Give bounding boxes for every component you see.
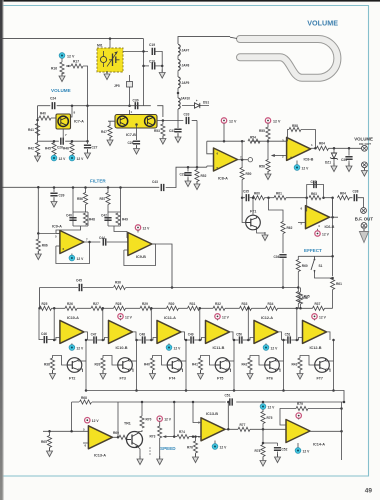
capacitor C26 series — [61, 138, 63, 145]
op-amp IC12-B — [303, 320, 327, 343]
transistor FT4 — [167, 358, 182, 373]
svg-text:R61: R61 — [276, 192, 282, 196]
test point — [248, 158, 252, 162]
wire gate network — [300, 356, 315, 366]
pin 5 input wire — [207, 165, 214, 167]
wire down to filter feed — [196, 121, 198, 168]
ground below MI1 — [106, 72, 108, 74]
svg-text:R25: R25 — [42, 302, 48, 306]
pedal cable loop graphic — [240, 39, 337, 78]
svg-text:C45: C45 — [76, 279, 82, 283]
svg-text:R47: R47 — [101, 130, 107, 134]
continuation dots — [149, 447, 150, 448]
svg-text:C52: C52 — [282, 448, 288, 452]
svg-text:JAF10: JAF10 — [181, 97, 191, 101]
svg-text:12 V: 12 V — [59, 157, 67, 161]
feedback loop IC9-A — [56, 242, 90, 264]
svg-text:C42: C42 — [101, 214, 107, 218]
svg-text:R32: R32 — [215, 302, 221, 306]
svg-text:R40: R40 — [40, 112, 46, 116]
capacitor C52 + ground — [274, 448, 281, 450]
wire inter-stage — [282, 339, 287, 341]
wire gate network — [153, 356, 168, 366]
wire chain tap down — [199, 308, 201, 340]
wire chain bus — [103, 307, 114, 309]
wire chain bus — [278, 307, 313, 309]
node chain tap — [150, 307, 153, 310]
capacitor C36 — [279, 255, 286, 257]
capacitor C48 — [143, 336, 145, 343]
wire signal row y105.7 — [38, 105, 51, 107]
transistor FT2 — [67, 358, 82, 373]
wire drain column — [85, 340, 87, 391]
wire C46 to stage1 node — [48, 339, 55, 341]
zener DZ1 — [333, 148, 335, 152]
wire chain bus — [152, 307, 167, 309]
svg-text:IC14-A: IC14-A — [313, 443, 325, 447]
wire gate network — [103, 356, 118, 366]
wire source stub — [276, 360, 284, 362]
resistor R57 — [107, 188, 109, 194]
resistor gate FT4 — [150, 358, 154, 370]
wire oscillator top bus y402 — [72, 401, 226, 403]
svg-text:12 V: 12 V — [229, 120, 237, 124]
wire chain bus — [179, 307, 188, 309]
wire output — [278, 332, 282, 340]
svg-text:R49: R49 — [122, 218, 128, 222]
resistor R30 — [167, 306, 179, 310]
microphone MI1 — [97, 44, 123, 73]
svg-text:12 V: 12 V — [273, 120, 281, 124]
output wire + C44 — [84, 241, 100, 243]
wire output — [133, 332, 137, 340]
wire chain tap down — [296, 308, 298, 340]
wire R17 to bias rail — [83, 66, 88, 106]
ground below gate resistor — [249, 370, 251, 374]
svg-text:R48: R48 — [89, 218, 95, 222]
op-amp IC6-B — [306, 206, 330, 229]
svg-text:C38: C38 — [353, 190, 359, 194]
svg-text:R57: R57 — [100, 197, 106, 201]
wire filter bus y187.5 — [0, 186, 159, 188]
svg-text:12 V: 12 V — [125, 315, 133, 319]
svg-text:R65: R65 — [41, 440, 47, 444]
wire drain column — [136, 340, 138, 391]
capacitor C49 — [191, 336, 193, 343]
svg-text:12 V: 12 V — [143, 227, 151, 231]
svg-text:R69: R69 — [113, 431, 119, 435]
svg-text:C43: C43 — [152, 180, 158, 184]
resistor R34 — [266, 306, 278, 310]
wire inter-stage — [87, 339, 93, 341]
svg-text:IC6-B: IC6-B — [325, 225, 335, 229]
supply dot 12V (IC8-A) — [221, 118, 226, 123]
svg-text:R60: R60 — [254, 192, 260, 196]
12V red above IC14-A — [296, 413, 301, 418]
transistor FT5 — [215, 358, 230, 373]
inductor JAF9 — [177, 71, 179, 78]
svg-text:IC7-B: IC7-B — [126, 133, 136, 137]
wire vertical rail x143.5 — [143, 39, 145, 106]
ground below R16 — [61, 74, 63, 76]
svg-text:IC10-A: IC10-A — [67, 316, 79, 320]
wire JAF column top to loop — [178, 37, 230, 44]
svg-text:R35: R35 — [304, 295, 310, 299]
wire output — [84, 332, 88, 340]
wire inverting input stub — [248, 338, 254, 341]
resistor R26 — [65, 306, 77, 310]
bus y287.5 — [40, 287, 299, 289]
capacitor C39 + ground — [53, 188, 55, 193]
wire inverting input stub — [103, 338, 109, 341]
wire source stub — [129, 360, 137, 362]
svg-text:R55: R55 — [259, 129, 265, 133]
capacitor C50 — [240, 336, 242, 343]
transistor FT7 — [315, 358, 330, 373]
svg-text:R58: R58 — [292, 124, 298, 128]
svg-text:FT3: FT3 — [120, 377, 126, 381]
svg-text:12 V: 12 V — [164, 418, 172, 422]
svg-text:12 V: 12 V — [92, 419, 100, 423]
capacitor C51 — [288, 336, 290, 343]
resistor R60h — [253, 196, 265, 200]
wire gate network — [53, 356, 68, 366]
op-amp IC13-B — [201, 418, 225, 441]
resistor R41 — [35, 124, 39, 136]
cap/res pair C37 R63 feedback — [307, 180, 324, 200]
resistor R62 column — [269, 198, 284, 222]
wire feedback row y141.2 — [207, 140, 245, 142]
svg-text:R30: R30 — [169, 302, 175, 306]
svg-text:IC8-A: IC8-A — [218, 177, 228, 181]
wire MI1 out to C19 node — [123, 50, 148, 52]
12V teal below IC8-B — [296, 161, 298, 166]
wire MI1 top stub — [109, 39, 111, 48]
12V teal below IC9-A — [71, 254, 73, 257]
svg-text:C51: C51 — [225, 394, 231, 398]
svg-text:R77: R77 — [240, 423, 246, 427]
svg-text:C27: C27 — [92, 146, 98, 150]
output wire IC8-B — [311, 147, 317, 149]
svg-text:IC11-B: IC11-B — [213, 346, 225, 350]
svg-text:R79: R79 — [297, 402, 303, 406]
svg-text:IC9-A: IC9-A — [52, 225, 62, 229]
wire source stub — [326, 360, 334, 362]
wire output — [327, 332, 331, 340]
svg-text:C49: C49 — [188, 333, 194, 337]
svg-text:R70: R70 — [146, 418, 152, 422]
resistor R74 to IC13-B — [174, 436, 177, 438]
capacitor C29 shunt — [187, 167, 189, 171]
cap/res pair C42 R49 — [101, 188, 128, 227]
emitter to ground — [139, 448, 141, 460]
supply dot 12V (IC8-B) — [265, 118, 270, 123]
svg-text:12 V: 12 V — [268, 406, 276, 410]
resistor gate FT5 — [198, 358, 202, 370]
wire chain down to C46 — [39, 308, 43, 339]
inductor JAF8 — [177, 56, 179, 60]
svg-text:TR1: TR1 — [124, 422, 131, 426]
resistor R16 — [61, 58, 63, 62]
12V teal below IC14-A — [297, 443, 299, 448]
12V red pot feed — [157, 416, 162, 421]
resistor R60v — [296, 260, 300, 272]
wire inverting input stub — [54, 338, 60, 341]
node chain tap — [53, 307, 56, 310]
svg-text:12 V: 12 V — [220, 446, 228, 450]
resistor R27 — [91, 306, 103, 310]
wire gate network — [250, 356, 265, 366]
wire bottom row y141.2 — [38, 140, 59, 142]
svg-text:C19: C19 — [149, 43, 155, 47]
wire pin5 feed — [182, 166, 207, 167]
node junction MI1 top — [109, 37, 112, 40]
op-amp IC11-A — [157, 320, 181, 343]
top black page line — [0, 0, 380, 2]
12V teal below IC13-B — [214, 441, 216, 445]
svg-text:R46: R46 — [63, 147, 69, 151]
supply dot 12V IC10-A — [69, 345, 75, 351]
svg-text:R64: R64 — [340, 192, 346, 196]
wire inverting input stub — [200, 338, 206, 341]
svg-text:JP5: JP5 — [114, 84, 120, 88]
resistor R77 — [238, 427, 250, 431]
svg-text:R38: R38 — [44, 363, 50, 367]
resistor R37 — [313, 306, 325, 310]
svg-text:R17: R17 — [73, 60, 79, 64]
op-amp IC7-B (dual fet module) — [115, 115, 157, 138]
svg-text:IC12-B: IC12-B — [310, 346, 322, 350]
resistor R65 + ground — [49, 431, 51, 436]
left bias rail — [37, 106, 39, 142]
wire gate network — [201, 356, 216, 366]
resistor R55 — [267, 123, 269, 127]
resistor R66 + ground — [37, 233, 39, 239]
svg-text:R56: R56 — [259, 165, 265, 169]
svg-text:FT4: FT4 — [169, 377, 175, 381]
svg-text:R33: R33 — [242, 302, 248, 306]
svg-text:C24: C24 — [50, 97, 56, 101]
op-amp IC11-B — [206, 320, 230, 343]
right rail + resistor R61v — [332, 256, 334, 276]
capacitor C28 + ground — [133, 141, 140, 143]
connector volume out sleeve — [362, 162, 368, 168]
svg-text:R52: R52 — [201, 174, 207, 178]
resistor R52 shunt — [196, 167, 198, 170]
svg-text:R36: R36 — [115, 281, 121, 285]
resistor R47 + ground — [108, 121, 115, 126]
svg-text:C30: C30 — [133, 99, 139, 103]
svg-text:R60: R60 — [302, 264, 308, 268]
pin2 wire from bus — [193, 402, 201, 423]
resistor R53 below output — [162, 121, 164, 125]
op-amp IC8-A — [214, 148, 238, 171]
wire C40 block to IC9-A pin — [56, 226, 81, 233]
svg-text:12 V: 12 V — [303, 450, 311, 454]
svg-text:C31: C31 — [169, 129, 175, 133]
pin 6 loop — [207, 141, 214, 154]
supply dot 12V — [59, 53, 65, 59]
svg-text:MI1: MI1 — [97, 44, 103, 48]
connector BF out — [361, 208, 367, 214]
svg-text:C36: C36 — [274, 255, 280, 259]
node inside IC7-B bottom — [135, 123, 138, 126]
svg-text:49: 49 — [365, 488, 373, 495]
svg-text:R41: R41 — [192, 363, 198, 367]
wire chain bus — [77, 307, 91, 309]
op-amp IC13-A — [88, 426, 112, 449]
wire C42 block down to IC9-B — [114, 226, 128, 238]
resistor R32 — [213, 306, 225, 310]
transistor FT1 — [246, 210, 261, 230]
connector BF sleeve — [361, 223, 367, 229]
wire to loop — [230, 37, 237, 38]
svg-text:12 V: 12 V — [77, 257, 85, 261]
switch S1 — [311, 256, 315, 273]
supply dot 12V IC12-B — [312, 314, 317, 319]
12V red above IC9-B — [135, 225, 140, 230]
svg-text:JAF7: JAF7 — [182, 49, 190, 53]
svg-text:C33: C33 — [184, 113, 190, 117]
output wire + R69 — [112, 436, 118, 438]
op-amp IC10-A — [60, 320, 84, 343]
wire output — [230, 332, 234, 340]
svg-text:FILTER: FILTER — [90, 179, 106, 184]
connector volume out — [362, 145, 368, 151]
wire IC7-B output — [157, 120, 183, 122]
svg-text:R73: R73 — [150, 435, 156, 439]
wire chain bus — [325, 307, 333, 309]
output wire IC9-B down to bus — [152, 244, 172, 288]
wire chain bus — [252, 307, 266, 309]
svg-text:R42: R42 — [242, 363, 248, 367]
feedback loop IC13-A — [72, 402, 118, 437]
svg-text:SPEED: SPEED — [160, 446, 176, 451]
svg-text:R63: R63 — [311, 192, 317, 196]
pin 8 — [71, 106, 73, 117]
12V red above IC13-A — [85, 418, 90, 423]
supply dot 12V IC10-B — [118, 314, 123, 319]
wire phaser bottom bus — [86, 391, 344, 403]
node pin8 — [71, 104, 74, 107]
capacitor C27 + ground — [87, 141, 89, 144]
12V teal top of R75 column — [260, 404, 266, 410]
resistor R40 input — [38, 117, 40, 119]
svg-text:R28: R28 — [116, 302, 122, 306]
svg-text:C50: C50 — [236, 333, 242, 337]
wiper arrow to IC8-B pin2 — [275, 155, 287, 157]
wire inverting input stub — [297, 338, 303, 341]
resistor R58v below — [297, 288, 299, 293]
svg-text:12 V: 12 V — [222, 315, 230, 319]
svg-text:C35: C35 — [243, 190, 249, 194]
potentiometer R73 speed — [159, 422, 161, 427]
svg-text:C47: C47 — [91, 333, 97, 337]
wire chain bus — [39, 307, 41, 309]
wire inter-stage — [185, 339, 191, 341]
wire inter-stage — [136, 339, 142, 341]
resistor R75 — [262, 409, 264, 412]
left bus down — [37, 187, 39, 233]
feedback R79 — [280, 409, 296, 426]
svg-text:C34: C34 — [341, 158, 347, 162]
svg-text:IC10-B: IC10-B — [116, 346, 128, 350]
inductor JAF7 — [178, 45, 180, 56]
ground below gate resistor — [102, 370, 104, 374]
wire IC8-A output down — [241, 141, 243, 168]
capacitor C47 — [94, 336, 96, 343]
resistor R28 — [114, 306, 126, 310]
resistor R61h — [274, 196, 286, 200]
diode DS1 — [182, 105, 209, 107]
svg-text:R40: R40 — [144, 363, 150, 367]
svg-text:R76: R76 — [187, 446, 193, 450]
svg-text:R26: R26 — [67, 302, 73, 306]
op-amp IC10-B — [109, 320, 133, 343]
svg-text:R39: R39 — [95, 363, 101, 367]
svg-text:R61: R61 — [336, 282, 342, 286]
transistor FT6 — [265, 358, 280, 373]
ground below C19/C10 rail — [161, 66, 163, 73]
svg-text:R53: R53 — [154, 129, 160, 133]
svg-text:IC13-B: IC13-B — [206, 412, 218, 416]
wire chain bus — [225, 307, 240, 309]
wire source stub — [226, 360, 234, 362]
node chain tap — [296, 307, 299, 310]
wire chain tap down — [53, 308, 55, 340]
resistor R35 — [298, 292, 302, 304]
big ground arrow — [359, 226, 368, 243]
wire switch top rail — [298, 217, 332, 260]
wire drain column — [283, 340, 285, 391]
svg-text:JAF9: JAF9 — [182, 81, 190, 85]
pin wires — [298, 198, 307, 223]
svg-text:IC12-A: IC12-A — [261, 316, 273, 320]
resistor R50 — [240, 168, 244, 180]
output + feedback — [330, 216, 338, 218]
svg-text:12 V: 12 V — [271, 347, 279, 351]
wire source stub — [78, 360, 86, 362]
resistor R25 — [40, 306, 52, 310]
FT1 wires — [252, 198, 254, 216]
feedback R58 over IC8-B — [288, 130, 290, 142]
resistor R46 + 12V — [71, 141, 73, 143]
12V red below IC6-B — [317, 229, 319, 231]
ground below gate resistor — [200, 370, 202, 374]
node chain tap — [247, 307, 250, 310]
resistor R29 — [140, 306, 152, 310]
resistor R68 in bus — [79, 400, 92, 404]
capacitor C46 input — [44, 336, 46, 343]
svg-text:S1: S1 — [319, 264, 323, 268]
svg-text:R68: R68 — [81, 396, 87, 400]
svg-text:IC11-A: IC11-A — [164, 316, 176, 320]
pin 1 stub — [129, 110, 131, 115]
svg-text:FT2: FT2 — [69, 377, 75, 381]
cap/res pair C40 R48 — [66, 188, 95, 227]
resistor gate FT2 — [50, 358, 54, 370]
svg-text:R78: R78 — [255, 449, 261, 453]
node chain tap — [199, 307, 202, 310]
wire chain bus — [52, 307, 66, 309]
capacitor C34 — [348, 148, 350, 155]
wire inverting input stub — [151, 338, 157, 341]
wire chain tap down — [247, 308, 249, 340]
wire chain bus — [200, 307, 214, 309]
svg-text:R64: R64 — [319, 142, 325, 146]
svg-text:12 V: 12 V — [67, 55, 75, 59]
svg-text:R43: R43 — [292, 363, 298, 367]
